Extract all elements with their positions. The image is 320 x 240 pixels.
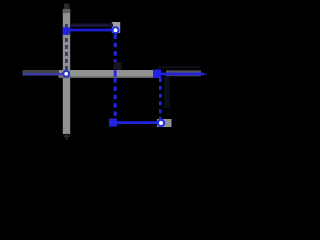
handle node A solid [63,27,71,35]
ghost column below wire W4 [164,76,170,108]
dashed line D3 node D to node F [159,78,162,119]
end mark below wire W1 [66,134,68,140]
ghost band above wire B1 [70,24,113,28]
ghost column above bus W2 at D2 [114,62,122,70]
stub S1 gray above node B [112,22,120,33]
stub S2 gray right of node F [157,119,172,127]
handle node D solid [153,70,161,79]
handle node C open [62,70,70,78]
handle node F open [157,119,165,127]
wire W2 horizontal gray bus [59,70,155,78]
end dash above wire W1 [64,4,70,10]
dashed line D1 node A to node C [65,24,68,71]
wire B3 right middle blue segment [157,73,204,76]
ghost band above wire B3 [158,66,200,69]
dashed line D2 dash crossing bus W2 [114,70,117,76]
wire W1 vertical gray bus [63,9,70,134]
wire B4 bottom blue segment [112,121,161,124]
dashed line D2 lower part bus W2 down to node E [114,78,117,120]
wire W4 right dark gray bus [166,70,201,76]
dashed line D2 upper part node B down to bus W2 [114,35,117,70]
handle node E solid [109,119,117,127]
handle node B open [112,26,120,34]
wire B2 left middle blue segment [23,73,66,76]
canvas background [0,0,220,165]
wire B1 top blue segment [66,29,115,32]
wire W3 left dark gray bus [23,70,60,76]
